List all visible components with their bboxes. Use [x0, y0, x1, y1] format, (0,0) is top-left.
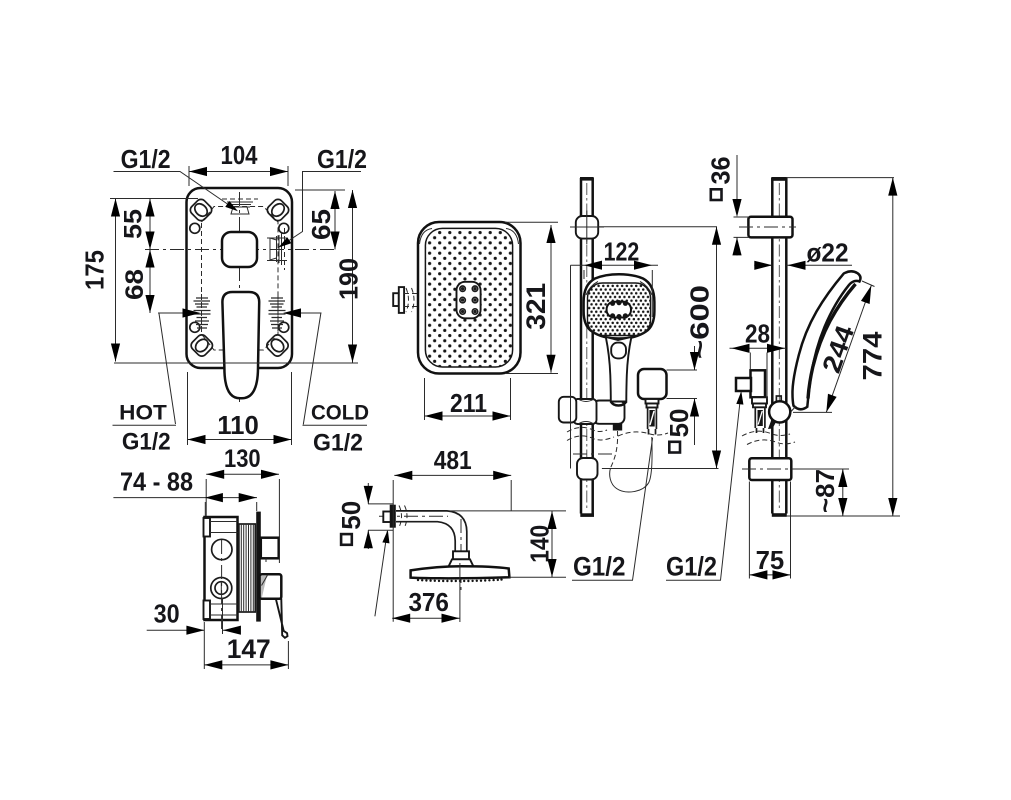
svg-text:ø22: ø22 — [807, 238, 849, 268]
svg-text:147: 147 — [227, 634, 271, 664]
svg-text:122: 122 — [604, 237, 640, 267]
svg-text:G1/2: G1/2 — [121, 144, 171, 174]
svg-text:50: 50 — [664, 409, 694, 438]
svg-text:130: 130 — [224, 445, 261, 473]
svg-text:104: 104 — [221, 140, 258, 170]
svg-text:HOT: HOT — [119, 401, 167, 425]
svg-text:75: 75 — [756, 545, 785, 575]
svg-text:110: 110 — [217, 410, 259, 440]
svg-text:55: 55 — [120, 209, 148, 239]
svg-text:190: 190 — [334, 258, 364, 300]
svg-text:30: 30 — [154, 599, 180, 629]
svg-text:G1/2: G1/2 — [666, 552, 717, 582]
svg-text:74 - 88: 74 - 88 — [120, 467, 193, 497]
svg-text:G1/2: G1/2 — [573, 552, 626, 582]
svg-text:68: 68 — [121, 269, 149, 300]
svg-text:G1/2: G1/2 — [317, 144, 367, 174]
svg-text:~600: ~600 — [685, 285, 715, 359]
svg-text:~87: ~87 — [810, 469, 840, 513]
svg-text:140: 140 — [525, 525, 555, 563]
svg-text:65: 65 — [306, 209, 336, 240]
svg-text:50: 50 — [336, 501, 366, 530]
svg-text:211: 211 — [450, 388, 487, 418]
svg-text:36: 36 — [706, 157, 736, 185]
svg-text:481: 481 — [434, 445, 472, 475]
svg-text:COLD: COLD — [311, 401, 369, 425]
svg-text:28: 28 — [745, 319, 770, 349]
svg-text:321: 321 — [521, 283, 551, 330]
svg-text:376: 376 — [408, 587, 449, 617]
svg-text:G1/2: G1/2 — [313, 430, 363, 457]
svg-text:G1/2: G1/2 — [122, 429, 171, 456]
svg-text:774: 774 — [857, 332, 887, 381]
svg-text:175: 175 — [80, 250, 110, 290]
